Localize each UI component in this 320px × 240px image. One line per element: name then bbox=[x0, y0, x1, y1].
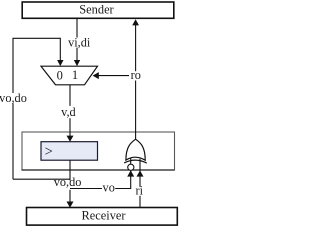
mux input pin label 1 bbox=[72, 68, 78, 82]
node label v,d bbox=[59, 105, 79, 119]
gate body bbox=[126, 139, 145, 160]
node label ro bbox=[129, 68, 142, 82]
latch register L1 bbox=[41, 142, 98, 161]
svg-text:ro: ro bbox=[131, 68, 141, 82]
node label vo,do background bbox=[54, 180, 82, 189]
svg-text:0: 0 bbox=[57, 68, 63, 82]
wire feedback loop top: left vertical to mux input 0 bbox=[13, 38, 64, 179]
svg-text:vo,do: vo,do bbox=[0, 91, 27, 105]
xor second input arc bbox=[124, 160, 147, 163]
mux input pin label 0 bbox=[57, 68, 63, 82]
svg-text:Receiver: Receiver bbox=[81, 208, 126, 222]
svg-text:Sender: Sender bbox=[79, 3, 114, 17]
wire vo branch to gate left input bbox=[70, 170, 134, 188]
svg-text:1: 1 bbox=[72, 68, 78, 82]
wire junction to left feedback loop bbox=[13, 178, 70, 180]
node label ri bbox=[135, 184, 145, 198]
wire vi,di from Sender to mux input 1 bbox=[74, 19, 80, 67]
wire vo,do latch output down to Receiver bbox=[67, 160, 74, 208]
wire ro from gate output up to Sender bbox=[132, 19, 139, 139]
svg-text:>: > bbox=[45, 144, 53, 160]
wire v,d mux output to latch bbox=[67, 85, 74, 142]
outer latch-controller box bbox=[22, 132, 175, 170]
xnor gate U1 (xor with bubbled left input) pointing up bbox=[124, 139, 147, 170]
svg-text:vi,di: vi,di bbox=[68, 35, 91, 49]
svg-text:vo: vo bbox=[103, 181, 115, 195]
multiplexer MUX body bbox=[41, 66, 98, 85]
node label vi,di bbox=[67, 35, 92, 49]
wire ri from Receiver to gate right input bbox=[137, 159, 144, 208]
node label vo bbox=[102, 181, 115, 195]
svg-text:ri: ri bbox=[136, 184, 144, 198]
input bubble bbox=[128, 164, 134, 170]
svg-text:vo,do: vo,do bbox=[54, 175, 82, 189]
latch enable marker > bbox=[45, 144, 53, 160]
left input stub through bubble bbox=[130, 159, 132, 165]
wire mux select from ro line bbox=[93, 72, 136, 79]
sender box bbox=[22, 2, 174, 18]
receiver box bbox=[27, 208, 178, 226]
svg-text:v,d: v,d bbox=[61, 105, 76, 119]
outer box bottom edge bbox=[22, 169, 175, 171]
node label vo,do (left) bbox=[0, 91, 28, 105]
node label vo,do (bottom) bbox=[54, 175, 82, 189]
